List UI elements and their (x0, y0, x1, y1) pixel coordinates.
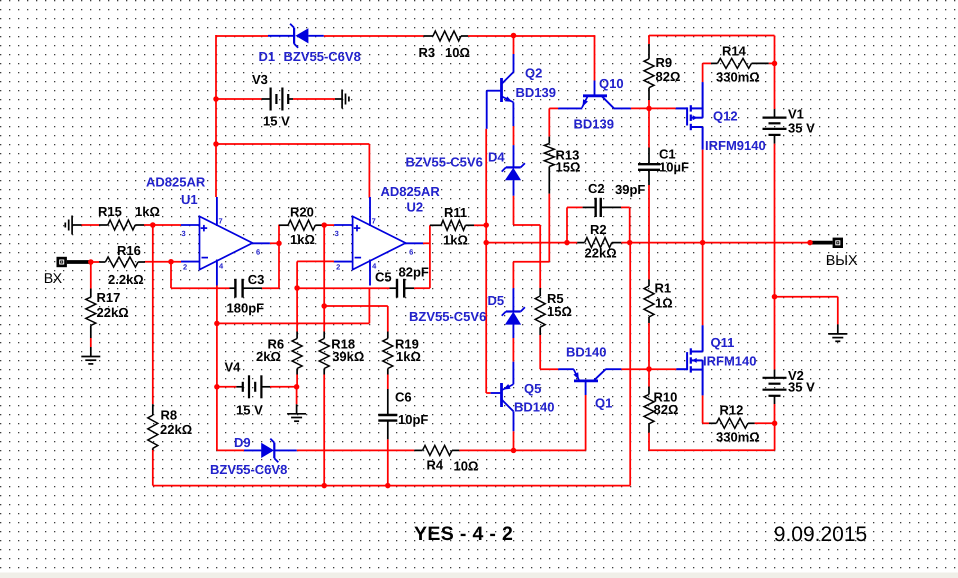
svg-text:Q5: Q5 (524, 381, 541, 396)
svg-text:35 V: 35 V (788, 380, 815, 395)
svg-text:R2: R2 (590, 222, 607, 237)
svg-text:15Ω: 15Ω (547, 304, 572, 319)
svg-text:BD140: BD140 (514, 400, 554, 415)
svg-text:1kΩ: 1kΩ (290, 232, 315, 247)
svg-text:Q1: Q1 (595, 396, 612, 411)
svg-text:R1: R1 (655, 281, 672, 296)
svg-text:7: 7 (372, 217, 376, 226)
svg-text:AD825AR: AD825AR (146, 175, 206, 190)
svg-text:10Ω: 10Ω (445, 45, 470, 60)
svg-text:V3: V3 (252, 72, 268, 87)
svg-text:R9: R9 (656, 55, 673, 70)
svg-text:3: 3 (335, 229, 339, 238)
svg-text:2.2kΩ: 2.2kΩ (108, 272, 144, 287)
svg-text:R16: R16 (117, 243, 141, 258)
svg-text:BZV55-C6V8: BZV55-C6V8 (210, 462, 287, 477)
svg-text:C2: C2 (588, 181, 605, 196)
svg-text:22kΩ: 22kΩ (160, 422, 192, 437)
svg-text:V4: V4 (225, 360, 242, 375)
svg-text:39pF: 39pF (615, 182, 645, 197)
svg-text:Q2: Q2 (525, 66, 542, 81)
svg-text:D4: D4 (488, 150, 505, 165)
svg-text:10Ω: 10Ω (454, 459, 479, 474)
svg-text:22kΩ: 22kΩ (585, 246, 617, 261)
svg-text:39kΩ: 39kΩ (332, 349, 364, 364)
svg-text:2: 2 (336, 263, 340, 272)
svg-text:82Ω: 82Ω (656, 69, 681, 84)
svg-text:D1: D1 (259, 49, 276, 64)
svg-text:R14: R14 (722, 44, 747, 59)
svg-text:1kΩ: 1kΩ (135, 204, 160, 219)
svg-text:BD140: BD140 (566, 345, 606, 360)
svg-text:R12: R12 (720, 403, 744, 418)
svg-text:BD139: BD139 (516, 85, 556, 100)
svg-text:IRFM140: IRFM140 (703, 354, 756, 369)
svg-text:R8: R8 (161, 408, 178, 423)
svg-text:R15: R15 (98, 204, 122, 219)
svg-text:R4: R4 (427, 458, 444, 473)
svg-text:U1: U1 (181, 192, 198, 207)
svg-text:2: 2 (183, 263, 187, 272)
svg-text:C5: C5 (375, 270, 392, 285)
svg-text:1Ω: 1Ω (655, 295, 673, 310)
svg-text:15Ω: 15Ω (556, 160, 581, 175)
svg-text:10pF: 10pF (398, 412, 428, 427)
svg-text:BZV55-C5V6: BZV55-C5V6 (406, 155, 483, 170)
svg-text:BD139: BD139 (574, 117, 614, 132)
svg-text:BZV55-C6V8: BZV55-C6V8 (284, 49, 361, 64)
svg-text:R3: R3 (419, 45, 436, 60)
svg-text:V1: V1 (788, 107, 804, 122)
svg-text:ВХ: ВХ (44, 271, 63, 287)
svg-text:9.09.2015: 9.09.2015 (774, 523, 867, 546)
svg-text:330mΩ: 330mΩ (716, 70, 760, 85)
svg-text:15 V: 15 V (236, 403, 263, 418)
svg-text:Q10: Q10 (599, 76, 624, 91)
svg-text:YES - 4 - 2: YES - 4 - 2 (414, 523, 513, 545)
svg-text:10µF: 10µF (659, 160, 689, 175)
svg-text:U2: U2 (407, 200, 424, 215)
svg-text:AD825AR: AD825AR (381, 184, 441, 199)
svg-text:2kΩ: 2kΩ (256, 349, 281, 364)
svg-text:D9: D9 (234, 435, 251, 450)
svg-text:R20: R20 (290, 205, 314, 220)
svg-text:7: 7 (219, 217, 223, 226)
svg-text:D5: D5 (488, 293, 505, 308)
svg-text:ВЫХ: ВЫХ (826, 253, 858, 269)
svg-text:C6: C6 (395, 390, 412, 405)
svg-text:BZV55-C5V6: BZV55-C5V6 (409, 309, 486, 324)
svg-text:330mΩ: 330mΩ (716, 430, 760, 445)
svg-text:R11: R11 (444, 205, 467, 220)
svg-text:15 V: 15 V (263, 114, 290, 129)
svg-text:R17: R17 (97, 290, 121, 305)
svg-text:1kΩ: 1kΩ (396, 349, 421, 364)
svg-text:82Ω: 82Ω (654, 402, 679, 417)
svg-text:6: 6 (409, 248, 413, 257)
svg-text:22kΩ: 22kΩ (97, 305, 129, 320)
svg-text:Q12: Q12 (713, 109, 738, 124)
svg-text:IRFM9140: IRFM9140 (705, 138, 766, 153)
svg-text:1kΩ: 1kΩ (443, 233, 468, 248)
svg-text:180pF: 180pF (227, 301, 265, 316)
svg-text:C3: C3 (248, 272, 265, 287)
svg-text:6: 6 (256, 248, 260, 257)
svg-text:82pF: 82pF (399, 265, 429, 280)
svg-text:35 V: 35 V (788, 121, 815, 136)
svg-text:3: 3 (182, 229, 186, 238)
svg-text:Q11: Q11 (711, 335, 735, 350)
